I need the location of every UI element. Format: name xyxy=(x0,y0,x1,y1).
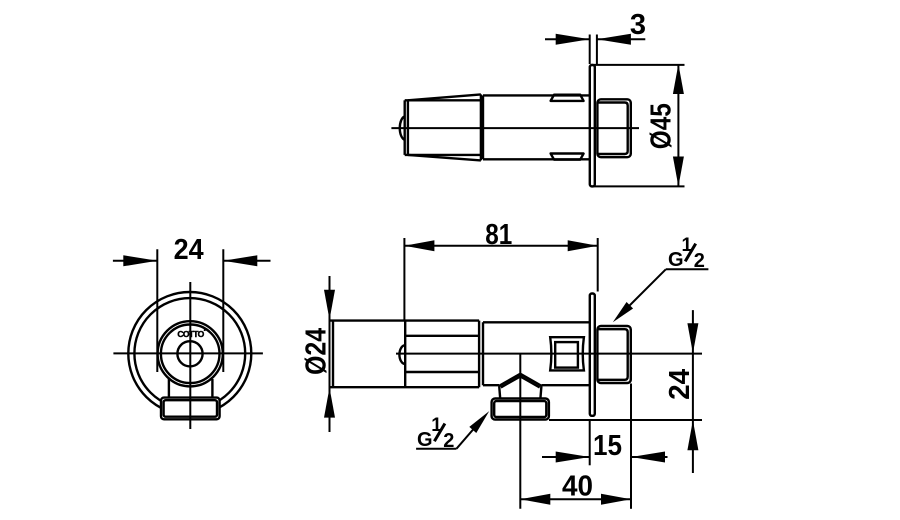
inlet pipe top edge xyxy=(330,319,480,321)
front horizontal centerline xyxy=(113,352,263,354)
bottom outlet taper right xyxy=(540,386,541,398)
outlet nut front inner xyxy=(164,400,217,417)
dim 3 right arrow and tail xyxy=(597,38,645,40)
hex nut chamfer arc xyxy=(399,345,405,364)
svg-text:Ø45: Ø45 xyxy=(646,103,678,149)
dim 15 extension line left xyxy=(589,420,591,465)
dim 40 left arrow xyxy=(520,494,550,505)
dim 24 right top arrow xyxy=(687,323,698,353)
G half bottom underline xyxy=(416,448,456,450)
handle cap bottom edge xyxy=(405,154,481,156)
inlet pipe bottom edge xyxy=(330,386,480,388)
outlet thread inner main view xyxy=(598,329,628,380)
dim 3 left arrow and tail xyxy=(545,38,590,40)
body slot top xyxy=(551,95,584,101)
handle spool inner xyxy=(555,342,578,368)
handle cap top edge xyxy=(405,99,481,101)
dim 24 right bottom extension line xyxy=(549,419,702,421)
dim 81 left arrow xyxy=(404,240,434,251)
svg-text:15: 15 xyxy=(593,430,622,462)
valve body outline top view xyxy=(483,95,590,159)
top view centerline xyxy=(391,127,639,129)
outlet nut front outer xyxy=(161,398,220,420)
wall flange main view xyxy=(590,294,595,416)
hub circle xyxy=(177,341,202,366)
bottom outlet taper left xyxy=(499,386,500,398)
bottom outlet centerline xyxy=(519,355,521,509)
dim 15 right arrow and tail xyxy=(631,456,668,458)
G half top leader arrowhead xyxy=(613,302,633,322)
svg-text:40: 40 xyxy=(562,471,593,503)
dim 40 right arrow xyxy=(601,494,631,505)
svg-text:Ø24: Ø24 xyxy=(301,328,333,375)
wall flange top view xyxy=(590,65,595,186)
handle taper bottom xyxy=(408,155,481,161)
dim 40 line xyxy=(520,498,631,500)
dim 81 right arrow xyxy=(568,240,598,251)
handle cap left edge xyxy=(404,100,406,155)
dim 24 right arrow and tail xyxy=(223,260,270,262)
outlet thread inner top view xyxy=(598,103,628,155)
outlet thread outer top view xyxy=(597,99,630,157)
handle cap inner edge xyxy=(407,100,409,155)
hex nut lower flat xyxy=(405,371,479,373)
dim 15 left arrow and tail xyxy=(542,456,590,458)
handle knob outer circle xyxy=(158,321,223,386)
stem right line xyxy=(211,379,213,398)
dim Ø24 bottom arrow xyxy=(324,388,335,418)
hex nut right edge xyxy=(478,321,480,388)
dim 81 extension line right xyxy=(597,238,599,292)
dim Ø45 top arrow xyxy=(673,64,684,94)
body slot bottom xyxy=(551,154,584,160)
main centerline xyxy=(396,353,702,355)
dim Ø45 line xyxy=(677,64,679,187)
dim 24 extension lines xyxy=(156,249,158,372)
G half top leader xyxy=(617,269,666,318)
G half bottom leader arrowhead xyxy=(469,411,489,433)
handle dome arc xyxy=(400,116,405,140)
handle spool outer xyxy=(550,337,584,370)
dim 24 right bottom arrow xyxy=(687,420,698,450)
valve body main view xyxy=(483,322,590,385)
front outer circle xyxy=(128,292,251,415)
stem left line xyxy=(168,379,170,398)
dim 3 extension lines xyxy=(589,35,591,65)
inlet pipe end edge xyxy=(332,321,334,388)
svg-text:24: 24 xyxy=(664,369,696,400)
front vertical centerline xyxy=(189,282,191,429)
dim 81 extension line left xyxy=(403,238,405,321)
G half top underline xyxy=(666,268,709,270)
dim 24 right line xyxy=(692,310,694,473)
svg-text:24: 24 xyxy=(174,234,204,266)
bottom outlet nut outer xyxy=(492,399,549,420)
dim 81 line xyxy=(404,245,597,247)
dim 15 extension line right xyxy=(630,384,632,509)
handle taper top xyxy=(408,94,481,100)
bottom outlet roof inner xyxy=(501,376,540,387)
dim 24 left arrow and tail xyxy=(113,260,157,262)
svg-text:3: 3 xyxy=(630,9,646,41)
outlet thread outer main view xyxy=(597,326,630,383)
dim Ø24 top arrow xyxy=(324,290,335,320)
hex nut left edge xyxy=(404,321,406,388)
dim Ø45 bottom arrow xyxy=(673,157,684,187)
hex nut upper flat xyxy=(405,335,479,337)
dim Ø45 extension lines xyxy=(591,64,685,66)
dim Ø24 line xyxy=(329,276,331,432)
G half bottom leader xyxy=(457,430,474,449)
bottom outlet nut inner xyxy=(494,401,546,417)
handle knob inner circle xyxy=(161,325,220,384)
svg-text:81: 81 xyxy=(485,219,512,251)
handle right edge xyxy=(480,94,482,160)
front inner circle xyxy=(134,298,245,409)
bottom outlet roof outer xyxy=(499,374,542,386)
